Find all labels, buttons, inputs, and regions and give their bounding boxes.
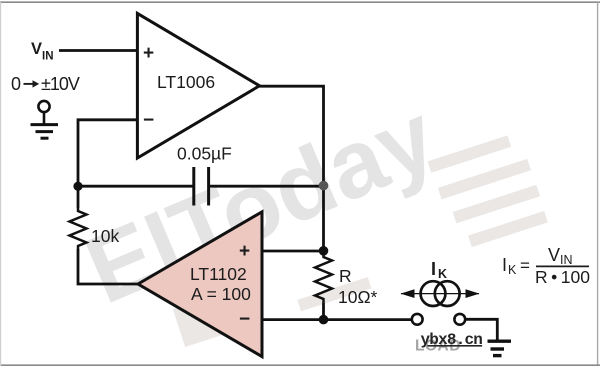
ground (input)	[31, 125, 59, 139]
resistor R2 10k	[70, 208, 87, 249]
wire output down to LT1102 + node	[322, 186, 325, 251]
junction dot right feedback node	[319, 181, 329, 191]
op-amp U2 LT1102	[138, 212, 262, 357]
label 0 to ±10V	[11, 74, 80, 94]
wire LT1102 + input to R top node	[262, 250, 324, 253]
terminal circle input common	[38, 101, 49, 112]
svg-text:K: K	[508, 263, 517, 277]
terminal circle load right	[454, 314, 465, 325]
watermark ybx8.cn	[421, 331, 483, 349]
resistor R1 R 10Ω	[315, 251, 332, 303]
svg-text:V: V	[31, 40, 42, 58]
wire LT1006 output	[258, 86, 324, 186]
svg-text:0.05µF: 0.05µF	[177, 144, 232, 164]
svg-text:I: I	[502, 255, 507, 275]
formula IK = VIN / (R·100)	[502, 245, 590, 287]
svg-text:LT1006: LT1006	[157, 72, 215, 92]
wire LT1102 - input along bottom to load terminal	[262, 318, 412, 321]
svg-text:0: 0	[11, 74, 21, 94]
svg-text:R: R	[339, 266, 352, 286]
svg-text:IN: IN	[42, 51, 54, 63]
svg-text:+: +	[239, 241, 250, 262]
ground (load)	[488, 341, 512, 355]
svg-text:±10V: ±10V	[41, 74, 80, 94]
svg-text:−: −	[239, 309, 250, 330]
watermark EIToday	[71, 83, 453, 326]
wire feedback right segment	[209, 185, 324, 188]
op-amp U1 LT1006	[137, 13, 259, 158]
capacitor C1 0.05µF	[194, 167, 209, 206]
svg-text:+: +	[143, 43, 154, 64]
wire feedback left segment	[78, 185, 194, 188]
svg-text:ybx8.cn: ybx8.cn	[421, 331, 483, 349]
terminal circle load left	[412, 314, 423, 325]
svg-text:A = 100: A = 100	[191, 284, 251, 304]
junction dot R bottom	[319, 315, 329, 325]
svg-text:=: =	[520, 256, 530, 275]
svg-text:10Ω*: 10Ω*	[338, 287, 378, 307]
label IK	[431, 259, 447, 281]
svg-text:I: I	[431, 259, 436, 279]
junction dot left feedback node	[73, 182, 82, 191]
svg-text:K: K	[438, 267, 447, 281]
wire left rail to LT1102 tip	[78, 249, 138, 284]
svg-text:LT1102: LT1102	[190, 264, 247, 284]
svg-text:IN: IN	[560, 253, 573, 267]
watermark blocks	[173, 135, 548, 347]
label R value	[338, 266, 378, 307]
svg-text:−: −	[143, 110, 154, 131]
junction dot R top	[319, 246, 329, 256]
svg-text:R • 100: R • 100	[535, 267, 590, 287]
wire terminal to ground	[43, 112, 46, 124]
svg-text:10k: 10k	[91, 226, 119, 246]
node VIN label	[31, 40, 54, 62]
current source IK symbol	[401, 281, 480, 306]
svg-text:V: V	[548, 245, 560, 265]
wire left rail through resistor	[77, 186, 80, 208]
wire right terminal to ground	[465, 319, 497, 340]
wire VIN to + input	[59, 49, 136, 52]
wire R bottom stub	[322, 303, 325, 320]
wire inverting input of LT1006	[78, 120, 136, 186]
